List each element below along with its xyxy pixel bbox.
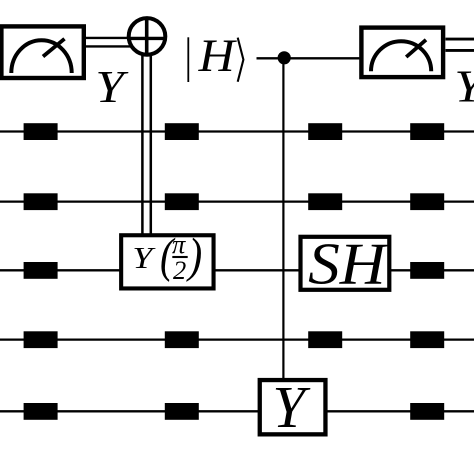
gate U2 box SH on qubit 3 (301, 237, 390, 290)
ket |H> state label (188, 31, 243, 82)
delay rectangle q5 col A (24, 403, 58, 420)
meter M2 (top-right measurement box) (361, 28, 443, 78)
svg-text:2: 2 (173, 255, 186, 285)
wire qubit 3 (0, 269, 474, 271)
meter M2 arc (371, 41, 431, 71)
delay rectangle q1 col B (165, 123, 199, 140)
delay rectangle q2 col B (165, 193, 199, 210)
meter M1 (top-left measurement box) (1, 26, 83, 78)
delay rectangle q1 col C (308, 123, 342, 140)
delay rectangle q4 col B (165, 331, 199, 348)
control vertical wire from dot to gate Y (282, 57, 284, 380)
classical double wire out of meter M2 (right edge) (446, 39, 474, 50)
classical double wire from meter M1 to CNOT target (84, 38, 131, 47)
delay rectangle q5 col B (165, 403, 199, 420)
wire (top qubit, from ket to meter M2) (257, 57, 360, 59)
CNOT target X1 (circle-plus) (127, 17, 167, 57)
svg-text:SH: SH (308, 231, 389, 297)
delay rectangle q2 col C (308, 193, 342, 210)
control dot on top qubit (278, 51, 291, 64)
wire qubit 1 (0, 130, 474, 132)
delay rectangle q1 col D (410, 123, 444, 140)
delay rectangle q4 col C (308, 331, 342, 348)
wire qubit 2 (0, 200, 474, 202)
delay rectangle q2 col A (24, 193, 58, 210)
meter M1 arc (11, 40, 71, 73)
gate U1 box Y(pi/2) on qubit 3 (121, 235, 213, 288)
wire qubit 4 (0, 338, 474, 340)
wire qubit 5 (0, 410, 474, 412)
svg-text:): ) (186, 227, 203, 282)
svg-text:Y: Y (454, 61, 474, 112)
svg-text:H: H (198, 31, 238, 82)
delay rectangle q2 col D (410, 193, 444, 210)
delay rectangle q1 col A (24, 123, 58, 140)
delay rectangle q4 col D (410, 331, 444, 348)
gate U3 box Y on qubit 5 (260, 380, 326, 434)
gate U1 fraction bar (172, 256, 187, 258)
meter M1 needle (43, 39, 65, 57)
delay rectangle q3 col A (24, 262, 58, 279)
meter M2 needle (406, 40, 426, 57)
delay rectangle q3 col D (410, 262, 444, 279)
delay rectangle q5 col D (410, 403, 444, 420)
delay rectangle q4 col A (24, 331, 58, 348)
vertical classical double wire from CNOT target down to gate Y(pi/2) (142, 54, 150, 235)
